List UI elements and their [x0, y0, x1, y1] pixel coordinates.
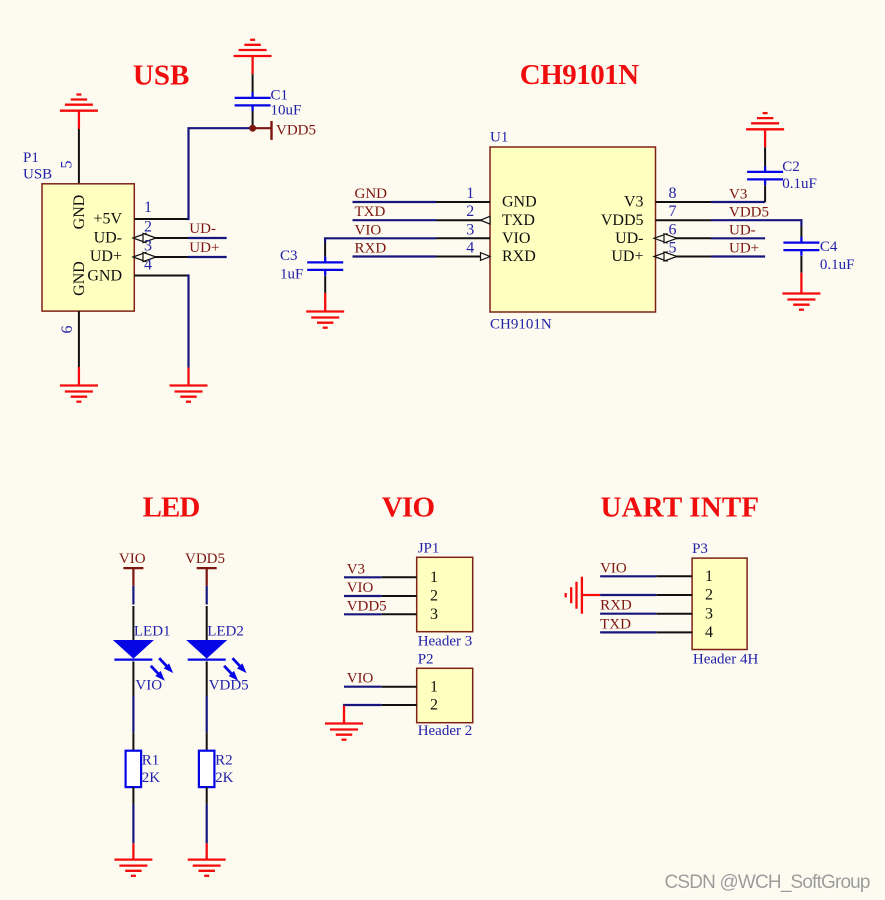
wire VIO to P2 pin1 — [344, 686, 382, 688]
U1 pin 1 (GND) — [436, 185, 537, 211]
svg-text:Header 4H: Header 4H — [693, 652, 759, 668]
ground below C4 — [782, 273, 820, 310]
power port VDD5 — [253, 121, 316, 140]
capacitor C1 — [235, 74, 271, 128]
svg-text:VDD5: VDD5 — [729, 204, 769, 220]
svg-text:3: 3 — [705, 605, 713, 622]
svg-text:VIO: VIO — [347, 671, 374, 687]
LED LED2 — [186, 606, 227, 696]
svg-text:P1: P1 — [23, 150, 39, 166]
wire VIO to LED1 anode — [132, 586, 134, 605]
svg-text:GND: GND — [355, 186, 388, 202]
svg-text:V3: V3 — [729, 186, 747, 202]
svg-text:VIO: VIO — [502, 230, 530, 247]
LED2 emission arrows — [221, 656, 249, 684]
svg-text:UART INTF: UART INTF — [601, 492, 760, 524]
svg-text:VDD5: VDD5 — [347, 598, 387, 614]
svg-text:VIO: VIO — [382, 492, 435, 524]
wire R2 to ground — [206, 804, 208, 843]
wire VIO to P3 pin1 — [600, 575, 656, 577]
svg-text:TXD: TXD — [355, 204, 386, 220]
P2 pin 2 — [382, 697, 438, 714]
svg-text:VIO: VIO — [355, 222, 382, 238]
JP1 pin 3 — [382, 606, 438, 623]
svg-text:2: 2 — [430, 588, 438, 605]
wire ground to P3 pin2 — [600, 594, 656, 596]
ground above capacitor C1 — [234, 40, 272, 74]
svg-text:CH9101N: CH9101N — [490, 317, 552, 333]
wire LED2 cathode to R2 — [206, 696, 208, 732]
svg-text:GND: GND — [502, 194, 537, 211]
svg-text:TXD: TXD — [502, 212, 535, 229]
P1 pin 3 — [133, 238, 188, 262]
svg-text:4: 4 — [144, 257, 152, 274]
P3 pin 4 — [656, 624, 713, 641]
svg-text:C3: C3 — [280, 248, 298, 264]
ground GND above P1 pin 5 — [60, 95, 98, 130]
svg-text:P2: P2 — [418, 651, 434, 667]
svg-text:2: 2 — [466, 203, 474, 220]
U1 pin 5 (UD+) — [611, 240, 711, 266]
svg-text:+5V: +5V — [93, 211, 122, 228]
ground below C3 — [306, 293, 344, 328]
IC U1 body — [490, 147, 656, 312]
JP1 pin 2 — [382, 588, 438, 605]
svg-text:RXD: RXD — [502, 248, 536, 265]
connector P1 body — [42, 184, 134, 311]
svg-text:VIO: VIO — [135, 678, 162, 694]
svg-text:TXD: TXD — [600, 616, 631, 632]
svg-text:3: 3 — [144, 238, 152, 255]
wire UD+ — [188, 256, 227, 258]
LED LED1 — [113, 606, 154, 696]
JP1 pin 1 — [382, 569, 438, 586]
svg-text:2: 2 — [144, 219, 152, 236]
junction dot VDD5 node — [249, 125, 256, 132]
wire RXD to P3 pin3 — [600, 613, 656, 615]
svg-text:4: 4 — [705, 624, 713, 641]
svg-text:GND: GND — [71, 195, 88, 230]
svg-text:1: 1 — [430, 678, 438, 695]
header P2 body — [417, 668, 473, 722]
wire VIO to JP1 pin 2 — [344, 595, 382, 597]
resistor R1 — [126, 732, 142, 804]
ground below R1 — [114, 843, 152, 876]
wire TXD to P3 pin4 — [600, 631, 656, 633]
svg-text:Header 2: Header 2 — [418, 723, 473, 739]
svg-text:UD+: UD+ — [611, 248, 643, 265]
wire P2 pin2 to ground — [343, 704, 382, 706]
wire UD- from U1 pin6 — [711, 237, 765, 239]
LED1 emission arrows — [148, 656, 176, 684]
svg-text:GND: GND — [87, 268, 122, 285]
svg-text:2: 2 — [430, 697, 438, 714]
svg-text:USB: USB — [133, 60, 190, 92]
svg-text:UD+: UD+ — [189, 240, 219, 256]
P1 pin 1 — [134, 199, 187, 219]
svg-text:RXD: RXD — [600, 598, 632, 614]
P3 pin 2 — [656, 587, 713, 604]
svg-text:1: 1 — [705, 568, 713, 585]
svg-text:R1: R1 — [142, 752, 160, 768]
ground below P2 pin2 — [325, 706, 363, 740]
U1 pin 6 (UD-) — [615, 221, 711, 247]
power port VIO above LED1 — [119, 551, 146, 586]
svg-text:VDD5: VDD5 — [601, 212, 644, 229]
P1 pin 2 — [133, 219, 188, 243]
svg-text:VDD5: VDD5 — [276, 123, 316, 139]
svg-text:1: 1 — [430, 569, 438, 586]
svg-text:V3: V3 — [347, 561, 365, 577]
svg-text:Header 3: Header 3 — [418, 634, 473, 650]
wire VDD5 to JP1 pin 3 — [344, 613, 382, 615]
wire V3 to JP1 pin 1 — [344, 576, 382, 578]
svg-text:USB: USB — [23, 167, 52, 183]
svg-text:C1: C1 — [271, 88, 289, 104]
svg-text:R2: R2 — [215, 752, 233, 768]
wire V3 from U1 pin8 to C2 — [711, 201, 765, 203]
svg-text:UD-: UD- — [615, 230, 643, 247]
svg-text:LED2: LED2 — [207, 624, 244, 640]
svg-text:7: 7 — [669, 203, 677, 220]
U1 pin 2 (TXD) — [436, 203, 535, 229]
svg-text:CSDN @WCH_SoftGroup: CSDN @WCH_SoftGroup — [665, 872, 871, 893]
P3 pin 3 — [656, 605, 713, 622]
svg-text:3: 3 — [466, 221, 474, 238]
svg-text:UD-: UD- — [729, 222, 756, 238]
svg-text:P3: P3 — [692, 541, 708, 557]
P3 pin 1 — [656, 568, 713, 585]
svg-text:LED: LED — [143, 492, 201, 524]
svg-text:VIO: VIO — [347, 580, 374, 596]
svg-text:1: 1 — [466, 185, 474, 202]
svg-text:VDD5: VDD5 — [209, 678, 249, 694]
svg-text:VIO: VIO — [600, 560, 627, 576]
wire UD+ from U1 pin5 — [711, 255, 765, 257]
wire RXD to U1 pin4 — [353, 255, 437, 257]
svg-text:UD+: UD+ — [729, 241, 759, 257]
wire +5V from P1 pin1 up to C1 junction — [187, 128, 250, 219]
svg-text:8: 8 — [669, 185, 677, 202]
svg-text:CH9101N: CH9101N — [520, 59, 639, 91]
svg-text:RXD: RXD — [355, 241, 387, 257]
connector P1 pin 5 — [59, 129, 79, 184]
ground above capacitor C2 — [746, 113, 784, 147]
wire VIO to U1 pin3 and down to C3 — [325, 238, 436, 243]
svg-text:6: 6 — [59, 326, 76, 334]
U1 pin 7 (VDD5) — [601, 203, 711, 229]
svg-text:2K: 2K — [142, 770, 161, 786]
wire LED1 cathode to R1 — [132, 696, 134, 732]
ground below P1 pin4 wire — [170, 368, 208, 402]
svg-text:2: 2 — [705, 587, 713, 604]
svg-text:4: 4 — [466, 240, 474, 257]
svg-text:JP1: JP1 — [418, 541, 440, 557]
capacitor C2 — [747, 147, 783, 202]
P1 pin 6 — [59, 311, 79, 367]
ground below P1 pin 6 — [60, 367, 98, 402]
svg-text:LED1: LED1 — [134, 624, 171, 640]
wire UD- — [188, 237, 227, 239]
svg-text:2K: 2K — [215, 770, 234, 786]
svg-text:C2: C2 — [782, 159, 800, 175]
svg-text:GND: GND — [71, 261, 88, 296]
wire VDD5 from U1 pin7 to C4 — [711, 220, 801, 226]
svg-text:1uF: 1uF — [280, 267, 303, 283]
svg-text:V3: V3 — [624, 194, 644, 211]
header P3 body — [692, 558, 747, 649]
capacitor C3 — [307, 243, 343, 293]
svg-text:UD+: UD+ — [90, 248, 122, 265]
P1 pin 4 — [134, 257, 187, 276]
wire TXD to U1 pin2 — [353, 219, 437, 221]
svg-text:C4: C4 — [820, 239, 838, 255]
resistor R2 — [199, 732, 215, 804]
svg-text:0.1uF: 0.1uF — [820, 257, 855, 273]
P2 pin 1 — [382, 678, 438, 695]
svg-text:UD-: UD- — [189, 221, 216, 237]
wire GND from P1 pin4 down — [187, 276, 189, 368]
U1 pin 8 (V3) — [624, 185, 711, 211]
svg-text:3: 3 — [430, 606, 438, 623]
ground below R2 — [188, 843, 226, 876]
wire VDD5 to LED2 anode — [206, 586, 208, 605]
U1 pin 3 (VIO) — [436, 221, 530, 247]
header JP1 body — [417, 557, 473, 631]
svg-text:UD-: UD- — [94, 230, 122, 247]
sideways ground at P3 pin2 — [566, 577, 600, 614]
svg-text:U1: U1 — [490, 130, 508, 146]
power port VDD5 above LED2 — [185, 551, 225, 586]
svg-text:0.1uF: 0.1uF — [782, 176, 817, 192]
wire GND to U1 pin1 — [353, 201, 437, 203]
svg-text:10uF: 10uF — [271, 103, 302, 119]
capacitor C4 — [783, 226, 819, 273]
wire R1 to ground — [132, 804, 134, 843]
U1 pin 4 (RXD) — [436, 240, 536, 266]
svg-text:VDD5: VDD5 — [185, 551, 225, 567]
svg-text:VIO: VIO — [119, 551, 146, 567]
svg-text:5: 5 — [59, 161, 76, 169]
svg-text:1: 1 — [144, 199, 152, 216]
